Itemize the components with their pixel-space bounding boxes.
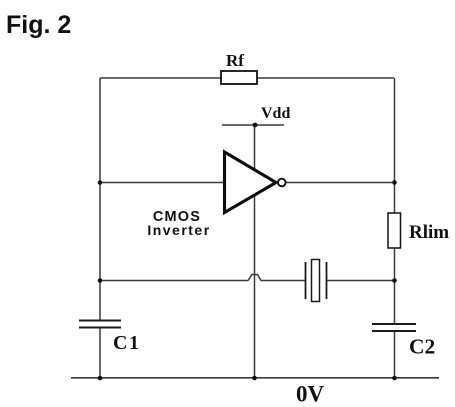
wire: inverter output [286,182,394,184]
title Fig. 2 [6,11,71,39]
capacitor C2 [372,324,435,359]
svg-text:Fig. 2: Fig. 2 [6,11,71,39]
wire: left rail [99,78,101,378]
junction dot: left rail / input [98,180,103,185]
crystal X1 [306,260,327,302]
op-amp U1 CMOS inverter [147,152,285,238]
junction dot: left rail / 0V [98,376,103,381]
svg-text:Rlim: Rlim [409,222,449,243]
resistor Rf [221,51,257,84]
svg-text:C1: C1 [113,332,140,354]
wire: right rail [394,78,396,378]
node Vdd [253,105,291,127]
junction dot: crystal wire / right rail [392,278,397,283]
junction dot: left rail / crystal wire [98,278,103,283]
svg-text:Vdd: Vdd [261,105,290,122]
svg-text:C2: C2 [409,335,435,359]
junction dot: output / right rail [392,180,397,185]
wire: inverter input [100,182,225,184]
junction dot: supply line / 0V [252,376,257,381]
wire: top feedback rail [100,77,394,79]
svg-text:Inverter: Inverter [147,222,210,238]
svg-text:Rf: Rf [226,51,244,70]
svg-text:0V: 0V [296,382,325,407]
resistor Rlim [388,213,449,248]
junction dot: right rail / 0V [392,376,397,381]
wire: bottom 0V rail [71,377,439,379]
capacitor C1 [79,321,140,355]
wire: Vdd stub [222,124,284,126]
node 0V label [296,382,325,407]
wire: crystal net with hop over supply line [100,275,394,281]
wire: inverter supply vertical (Vdd to 0V) [254,125,256,378]
